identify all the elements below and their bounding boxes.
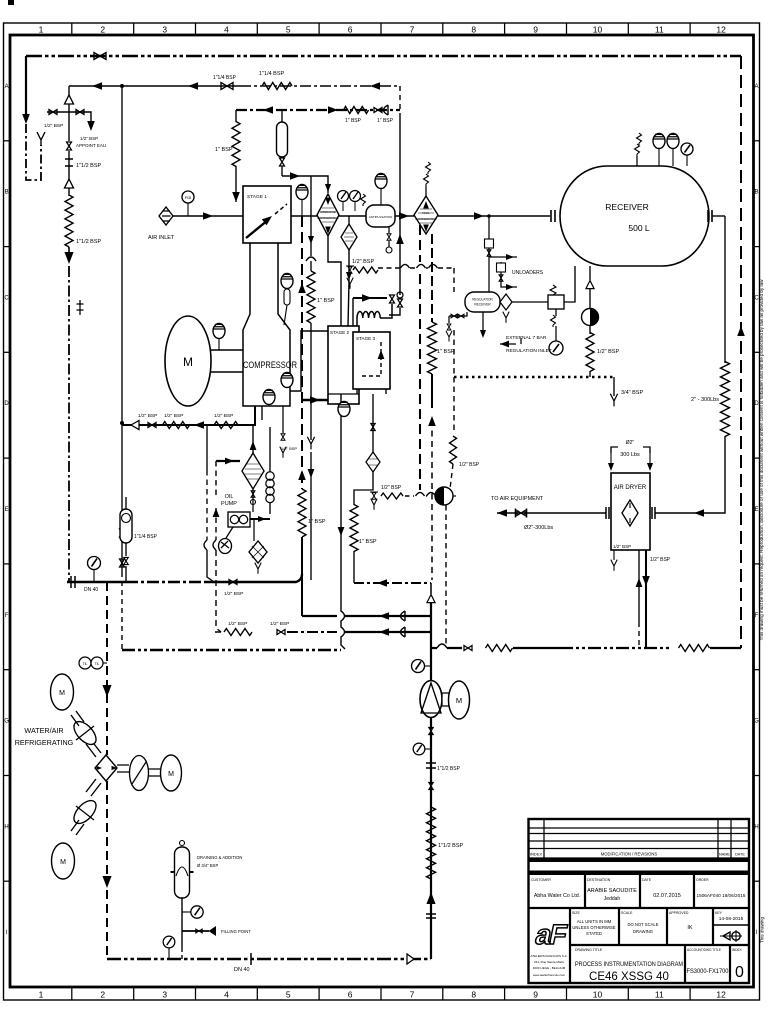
wire: dotted control line y377 xyxy=(454,376,614,379)
svg-text:INDEX: INDEX xyxy=(732,948,743,952)
info row xyxy=(570,908,713,983)
wire: dashed column x454 to regulation xyxy=(453,268,455,432)
fan right xyxy=(117,765,129,772)
svg-text:231, Rue Sainte-Marie: 231, Rue Sainte-Marie xyxy=(534,960,564,964)
stage 1 cylinder U1 xyxy=(243,186,291,243)
wire: below radiator xyxy=(106,781,108,876)
valve V1 on top header xyxy=(94,53,106,60)
svg-text:3: 3 xyxy=(162,25,167,35)
svg-text:A: A xyxy=(754,84,758,90)
svg-text:A: A xyxy=(5,84,9,90)
svg-text:4000 LIEGE - BELGIUM: 4000 LIEGE - BELGIUM xyxy=(533,966,566,970)
svg-text:FS3000-FX1700: FS3000-FX1700 xyxy=(687,968,729,975)
final refrigerating exchanger E2 xyxy=(414,196,438,234)
wire: appoint eau branch xyxy=(47,112,91,124)
svg-text:WATER/AIR: WATER/AIR xyxy=(24,726,63,735)
oil strainer F2 xyxy=(242,453,264,489)
wire: dashed below 3way xyxy=(445,505,447,645)
projection symbol xyxy=(723,932,730,940)
regulator and hose 1/2 BSP y270 xyxy=(348,267,352,273)
wire: blowdown line y648 right xyxy=(431,647,462,649)
svg-text:SIZE: SIZE xyxy=(572,911,580,915)
svg-text:TIL: TIL xyxy=(95,662,100,666)
node: junction at x122 xyxy=(120,84,124,88)
svg-text:1/2" BSP: 1/2" BSP xyxy=(224,591,243,597)
svg-text:1/2" BSP: 1/2" BSP xyxy=(164,413,183,419)
valve under strainer xyxy=(251,491,255,497)
title block xyxy=(529,819,750,983)
regulator drain and gauge xyxy=(555,309,557,316)
company logo aF xyxy=(533,918,570,950)
drain under vessel xyxy=(482,312,484,334)
gauge on vessel leg xyxy=(191,906,203,918)
svg-text:1" BSP: 1" BSP xyxy=(215,147,233,153)
svg-text:9: 9 xyxy=(533,990,538,1000)
svg-text:Ø2": Ø2" xyxy=(626,440,635,446)
svg-text:ORDER: ORDER xyxy=(696,878,709,882)
shaft coupling xyxy=(211,350,243,372)
svg-text:1"1/2 BSP: 1"1/2 BSP xyxy=(76,239,102,245)
motor M1 xyxy=(165,316,211,406)
bottom row xyxy=(685,945,730,983)
svg-text:FILLING POINT: FILLING POINT xyxy=(221,929,251,934)
pressure regulator R1 xyxy=(548,295,564,309)
wire: oil line x207 xyxy=(206,425,208,470)
wire: left drain riser xyxy=(25,56,27,114)
stage 2 cylinder U2 xyxy=(328,326,359,404)
motor lower left xyxy=(52,843,75,879)
svg-text:M: M xyxy=(60,859,66,866)
svg-text:6: 6 xyxy=(348,25,353,35)
svg-text:ACCOUNT/DWG TITLE: ACCOUNT/DWG TITLE xyxy=(687,948,721,952)
instrument TMM receiver 2 xyxy=(667,134,679,149)
svg-text:This drawing: This drawing xyxy=(760,917,765,943)
svg-text:1/2" BSP: 1/2" BSP xyxy=(597,349,619,355)
relief on final cooler xyxy=(425,186,427,196)
svg-text:1"1/4 BSP: 1"1/4 BSP xyxy=(259,71,285,77)
svg-text:This drawing must be returned: This drawing must be returned on request… xyxy=(759,279,764,640)
svg-text:1/2" BSP: 1/2" BSP xyxy=(214,413,233,419)
wire: water return line y582 xyxy=(67,581,126,583)
svg-text:STAGE 2: STAGE 2 xyxy=(330,330,350,335)
funnel drain left xyxy=(37,132,45,146)
svg-text:10: 10 xyxy=(593,990,603,1000)
wire: suction line into stage1 xyxy=(173,215,243,217)
instrument gauge receiver xyxy=(681,143,693,155)
accumulator ACC1 xyxy=(281,110,283,122)
wire: main process line after stage1 xyxy=(291,215,317,217)
svg-text:REFRIGERATING: REFRIGERATING xyxy=(415,217,436,221)
svg-text:1" BSP: 1" BSP xyxy=(317,298,335,304)
wire: dashed from 3way to oil zigzag xyxy=(405,495,439,497)
svg-text:1"1/2 BSP: 1"1/2 BSP xyxy=(437,766,461,772)
wire: right dashed riser x741 xyxy=(740,56,742,648)
instrument TMM crankcase top xyxy=(281,274,293,289)
flange receiver outlet right xyxy=(708,210,712,222)
svg-text:REGULATION INLET: REGULATION INLET xyxy=(506,348,552,354)
gauge on water return xyxy=(88,557,101,570)
svg-text:2" - 300Lbs: 2" - 300Lbs xyxy=(691,397,719,403)
svg-text:PUMP: PUMP xyxy=(221,501,237,507)
svg-text:M: M xyxy=(183,355,193,369)
wire: receiver drain column x590 xyxy=(589,266,591,280)
svg-text:12: 12 xyxy=(716,25,726,35)
wire: intercooler to stage2 xyxy=(328,236,341,326)
wire: oil suction line y425 xyxy=(122,406,255,425)
svg-text:REFRIGERATING: REFRIGERATING xyxy=(15,738,74,747)
wire: column x341 with jumps xyxy=(341,394,345,649)
flange at receiver inlet xyxy=(551,210,555,222)
svg-text:APPROVED: APPROVED xyxy=(669,911,689,915)
svg-text:SCALE: SCALE xyxy=(621,911,633,915)
svg-text:STAGE 1: STAGE 1 xyxy=(247,194,267,200)
radiator center diamond xyxy=(95,755,117,781)
relief valve on receiver xyxy=(636,156,638,166)
pump P2 with motor M2 xyxy=(420,681,442,718)
intercooler coil between stages xyxy=(357,304,392,326)
wire: unloader pilot riser x489 xyxy=(488,216,490,292)
svg-text:1"1/2 BSP: 1"1/2 BSP xyxy=(438,843,464,849)
svg-text:1" BSP: 1" BSP xyxy=(377,118,394,124)
instrument TIL pair xyxy=(79,657,91,669)
fan upper left xyxy=(86,740,101,757)
instrument PCB gauge xyxy=(182,191,194,203)
svg-text:FINAL: FINAL xyxy=(422,211,430,215)
union fitting 1"1/2 BSP xyxy=(65,158,73,179)
svg-text:PROCESS INSTRUMENTATION DIAGRA: PROCESS INSTRUMENTATION DIAGRAM xyxy=(575,961,683,968)
svg-text:8: 8 xyxy=(471,990,476,1000)
wire: condensate line y583 xyxy=(354,582,431,584)
svg-text:12: 12 xyxy=(716,990,726,1000)
svg-text:UNLESS OTHERWISE: UNLESS OTHERWISE xyxy=(572,925,615,930)
svg-text:B: B xyxy=(5,190,9,196)
svg-text:EXTERNAL 7 BAR: EXTERNAL 7 BAR xyxy=(506,335,547,341)
svg-text:1"1/4 BSP: 1"1/4 BSP xyxy=(213,75,237,81)
hose H3 1" BSP xyxy=(344,107,369,114)
antipulsation damper D1 xyxy=(366,205,395,227)
separator S1 xyxy=(348,216,350,224)
svg-text:Jeddah: Jeddah xyxy=(604,896,621,902)
svg-text:DRAWING TITLE: DRAWING TITLE xyxy=(575,948,603,952)
wire: bottom return line y959 xyxy=(107,958,431,960)
svg-text:1/2" BSP: 1/2" BSP xyxy=(138,413,157,419)
check valve CK1 xyxy=(384,105,389,115)
svg-text:Ø2"-300Lbs: Ø2"-300Lbs xyxy=(524,525,553,531)
instrument TMM crankcase bottom xyxy=(263,390,275,405)
stage 3 cylinder U3 xyxy=(353,332,390,389)
regulation receiver vessel xyxy=(465,292,500,312)
wire: column x311 xyxy=(310,176,312,256)
svg-text:1/2" BSP: 1/2" BSP xyxy=(650,557,671,563)
svg-text:DRAINING & ADDITION: DRAINING & ADDITION xyxy=(197,855,242,860)
svg-text:DRAWING: DRAWING xyxy=(633,929,653,934)
svg-text:REGULATION: REGULATION xyxy=(472,298,493,302)
svg-text:PCB: PCB xyxy=(185,196,192,200)
svg-text:7: 7 xyxy=(410,25,415,35)
wire: feed to intercooler diamond xyxy=(282,176,328,193)
svg-text:1"1/2 BSP: 1"1/2 BSP xyxy=(76,163,102,169)
wire: main line to final cooler xyxy=(395,215,414,217)
svg-text:02.07.2015: 02.07.2015 xyxy=(653,893,681,899)
hose H2 vertical 1"1/2 BSP xyxy=(65,195,73,247)
svg-text:DN 40: DN 40 xyxy=(234,967,250,973)
stub flange xyxy=(77,300,84,315)
svg-text:H: H xyxy=(4,824,8,830)
wire: compressor to stage2 xyxy=(301,330,328,332)
svg-text:DESTINATION: DESTINATION xyxy=(587,878,611,882)
svg-text:4: 4 xyxy=(224,25,229,35)
glycol expansion vessel xyxy=(181,948,183,959)
svg-text:M: M xyxy=(59,690,65,697)
wire: crankcase drains xyxy=(261,406,263,420)
external regulation inlet xyxy=(500,341,509,348)
svg-text:IK: IK xyxy=(687,925,693,931)
svg-text:C: C xyxy=(4,296,9,302)
svg-text:500 L: 500 L xyxy=(628,223,650,233)
drain under antipulsation xyxy=(388,227,390,247)
wire: left water inlet column x69 xyxy=(68,86,70,96)
oil cooler coil xyxy=(266,472,274,480)
svg-text:1/2" BSP: 1/2" BSP xyxy=(352,259,374,265)
wire: dashed column x302 xyxy=(301,216,303,489)
wire: condensate collector y616 xyxy=(302,615,431,617)
wire: dashed pilot line y268 xyxy=(378,267,454,269)
wire: long thin column x122 xyxy=(121,86,123,423)
svg-text:2: 2 xyxy=(100,25,105,35)
instrument TMM crankcase right xyxy=(281,373,293,388)
flanges dryer xyxy=(606,507,609,519)
compressor crankcase body xyxy=(243,243,290,406)
svg-text:ANTIPULSATION: ANTIPULSATION xyxy=(369,215,393,219)
svg-text:1/2" BSP: 1/2" BSP xyxy=(281,446,297,451)
wire: cooling water supply x107 xyxy=(106,582,108,755)
svg-text:6: 6 xyxy=(348,990,353,1000)
valve V2 1"1/4 BSP xyxy=(221,83,233,90)
svg-text:DATE: DATE xyxy=(642,878,652,882)
corner printing mark xyxy=(8,0,14,5)
svg-text:1/2" BSP: 1/2" BSP xyxy=(459,462,480,468)
svg-text:MODIFICATION / REVISIONS: MODIFICATION / REVISIONS xyxy=(601,852,658,857)
svg-text:E: E xyxy=(754,507,758,513)
svg-text:AIR DRYER: AIR DRYER xyxy=(614,485,647,491)
svg-text:8: 8 xyxy=(471,25,476,35)
wire: riser x400 xyxy=(399,86,401,117)
wire: riser x236 with hose xyxy=(235,110,237,122)
svg-text:REFRIGERATING: REFRIGERATING xyxy=(317,216,338,220)
svg-text:CUSTOMER: CUSTOMER xyxy=(531,878,551,882)
svg-text:CE46 XSSG 40: CE46 XSSG 40 xyxy=(589,971,669,983)
instrument gauges above separator xyxy=(338,191,349,202)
small separator diamond xyxy=(500,294,512,310)
wire: oil return loop dashed xyxy=(215,461,217,540)
svg-text:ALL UNITS IN MM: ALL UNITS IN MM xyxy=(577,919,612,924)
svg-text:10: 10 xyxy=(593,25,603,35)
svg-text:9: 9 xyxy=(533,25,538,35)
instrument TMM on main line xyxy=(296,185,308,200)
svg-text:RECEIVER: RECEIVER xyxy=(605,202,648,212)
wire: lower left collector line xyxy=(122,649,341,651)
svg-text:1/2" BSP: 1/2" BSP xyxy=(80,136,98,141)
svg-text:STATED: STATED xyxy=(586,931,602,936)
svg-text:1506AF040 18/06/2015: 1506AF040 18/06/2015 xyxy=(696,893,745,898)
svg-text:1"1/4 BSP: 1"1/4 BSP xyxy=(134,534,158,540)
svg-text:APPOINT EAU: APPOINT EAU xyxy=(76,143,106,148)
svg-text:G: G xyxy=(754,719,759,725)
svg-text:NAME: NAME xyxy=(719,853,730,857)
svg-text:0: 0 xyxy=(735,964,744,981)
wire: main line to antipulsation xyxy=(339,215,366,217)
capacity bracket above dryer xyxy=(611,447,650,453)
fan lower left xyxy=(86,779,101,796)
svg-text:1: 1 xyxy=(39,990,44,1000)
separator S2 under stage3 xyxy=(372,394,374,452)
valve cluster left of vessel xyxy=(449,312,467,316)
svg-text:1/2" BSP: 1/2" BSP xyxy=(44,123,63,129)
svg-text:3/4" BSP: 3/4" BSP xyxy=(621,390,643,396)
gauge under oil pump xyxy=(226,527,233,538)
svg-text:Ø 3/4" BSP: Ø 3/4" BSP xyxy=(197,863,218,868)
svg-text:1/2" BSP: 1/2" BSP xyxy=(270,621,289,627)
svg-text:14-08-2015: 14-08-2015 xyxy=(719,916,744,922)
customer row xyxy=(585,875,694,908)
receiver tank T1 xyxy=(560,166,709,266)
svg-text:1/2" BSP: 1/2" BSP xyxy=(381,485,402,491)
svg-text:UNLOADERS: UNLOADERS xyxy=(512,270,544,276)
instrument TMM above antipulsation xyxy=(375,174,387,189)
three way valve dark xyxy=(435,487,453,505)
svg-text:STAGE 3: STAGE 3 xyxy=(356,336,376,341)
pump discharge fittings xyxy=(429,727,434,734)
oil filter F3 xyxy=(253,519,255,541)
svg-text:2: 2 xyxy=(100,990,105,1000)
wire: discharge header y110 xyxy=(236,109,400,111)
svg-text:1" BSP: 1" BSP xyxy=(345,118,362,124)
svg-text:M: M xyxy=(168,771,174,778)
instrument TMM receiver 1 xyxy=(653,134,665,149)
svg-text:G: G xyxy=(4,719,9,725)
svg-text:1" BSP: 1" BSP xyxy=(437,349,455,355)
svg-text:1" BSP: 1" BSP xyxy=(308,519,326,525)
accumulator on water line xyxy=(125,566,127,582)
wire: bypass riser x725 with hose xyxy=(724,216,726,363)
svg-text:TO AIR EQUIPMENT: TO AIR EQUIPMENT xyxy=(491,496,544,502)
svg-text:1" BSP: 1" BSP xyxy=(359,539,377,545)
svg-text:KEY: KEY xyxy=(715,911,723,915)
air inlet filter F1 xyxy=(159,207,173,225)
instrument gauge pump suction xyxy=(412,660,425,673)
wire: column x432 from final cooler xyxy=(431,234,433,322)
svg-text:www.atelierfrancois.com: www.atelierfrancois.com xyxy=(533,973,566,977)
svg-text:3: 3 xyxy=(162,990,167,1000)
instrument TMM on motor xyxy=(213,324,225,339)
motor upper left xyxy=(51,674,74,710)
valve V3 globe at x400 xyxy=(397,292,403,298)
svg-text:1/2" BSP: 1/2" BSP xyxy=(613,544,631,549)
svg-text:OIL: OIL xyxy=(225,494,234,500)
valve V4 1" BSP xyxy=(374,108,382,113)
wire: dryer condensate risers xyxy=(638,550,640,622)
svg-text:ATELIERS FRANCOIS S.A.: ATELIERS FRANCOIS S.A. xyxy=(530,954,567,958)
wire: second header line xyxy=(69,85,240,87)
svg-text:M: M xyxy=(456,696,462,705)
svg-text:5: 5 xyxy=(286,25,291,35)
wire: top header line dash-dot-dot xyxy=(26,55,741,57)
air dryer unit xyxy=(611,473,650,550)
svg-text:F: F xyxy=(5,613,9,619)
svg-text:1/2" BSP: 1/2" BSP xyxy=(228,621,247,627)
svg-text:11: 11 xyxy=(655,990,664,1000)
svg-text:INTERCOND: INTERCOND xyxy=(320,210,336,214)
hose H1 1"1/4 BSP xyxy=(262,83,292,90)
svg-text:TIL: TIL xyxy=(83,662,88,666)
gauge on bottom line xyxy=(163,936,175,948)
svg-text:INDEX: INDEX xyxy=(530,852,543,857)
instrument TMM on x341 xyxy=(338,402,350,417)
svg-text:DO NOT SCALE: DO NOT SCALE xyxy=(627,922,658,927)
wire: main line to receiver xyxy=(438,215,550,217)
svg-text:ARABIE SAOUDITE: ARABIE SAOUDITE xyxy=(587,888,637,894)
wire: dashed column x420 xyxy=(419,225,421,490)
revision table xyxy=(529,828,750,849)
intercond refrigerating exchanger E1 xyxy=(317,194,339,236)
svg-text:DATE: DATE xyxy=(735,853,745,857)
svg-text:11: 11 xyxy=(655,25,664,35)
svg-text:4: 4 xyxy=(224,990,229,1000)
svg-text:B: B xyxy=(754,190,758,196)
svg-text:H: H xyxy=(754,824,758,830)
motor right xyxy=(161,755,182,791)
dryer drain funnel xyxy=(613,550,615,560)
svg-text:AIR INLET: AIR INLET xyxy=(148,235,175,241)
svg-text:1: 1 xyxy=(39,25,44,35)
svg-text:300 Lbs: 300 Lbs xyxy=(620,452,640,458)
svg-text:DN 40: DN 40 xyxy=(84,587,98,593)
filling point branch xyxy=(182,930,209,932)
wire: to air equipment xyxy=(497,512,606,514)
svg-text:COMPRESSOR: COMPRESSOR xyxy=(243,360,297,371)
svg-text:RECEIVER: RECEIVER xyxy=(474,303,491,307)
svg-text:Abha Water Co Ltd.: Abha Water Co Ltd. xyxy=(534,893,580,899)
svg-text:E: E xyxy=(5,507,9,513)
wire: condensate collector y632 xyxy=(215,631,221,633)
svg-text:D: D xyxy=(4,401,9,407)
svg-text:7: 7 xyxy=(410,990,415,1000)
svg-text:5: 5 xyxy=(286,990,291,1000)
